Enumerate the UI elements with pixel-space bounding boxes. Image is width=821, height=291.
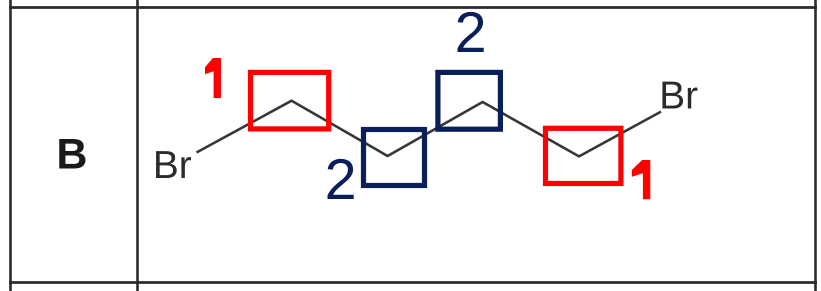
svg-text:B: B: [56, 131, 87, 179]
table right border: [814, 0, 817, 291]
svg-text:Br: Br: [659, 74, 698, 117]
table column divider: [136, 0, 139, 291]
svg-text:2: 2: [455, 1, 487, 65]
highlight square navy C2 (lower): [364, 130, 425, 186]
highlight square red C4 (right): [546, 128, 621, 183]
svg-text:Br: Br: [153, 144, 192, 187]
label 1 red right (custom no-foot glyph): [632, 160, 651, 199]
highlight square red C1 (left): [251, 72, 329, 128]
highlight square navy C3 (upper): [438, 72, 501, 129]
table top row line: [9, 6, 817, 9]
label 1 red left (custom no-foot glyph): [205, 58, 221, 98]
table bottom row line: [9, 281, 817, 284]
svg-text:2: 2: [325, 148, 357, 212]
bond chain Br-C1-C2-C3-C4-Br: [197, 101, 662, 157]
table left border: [9, 0, 12, 291]
